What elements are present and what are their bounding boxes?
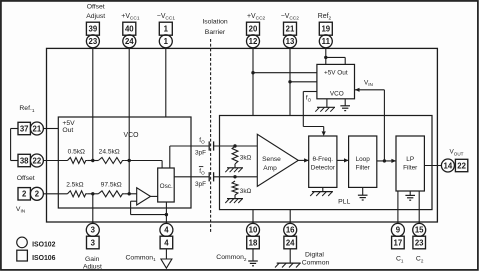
svg-text:14: 14 — [444, 161, 453, 170]
isolation barrier label — [202, 18, 228, 36]
ground (chassis) under upper 3k — [227, 167, 243, 169]
svg-text:1: 1 — [164, 25, 169, 34]
phase-frequency detector box — [309, 136, 337, 187]
pin label Ref1 — [19, 105, 34, 114]
ground under LP filter — [405, 194, 415, 196]
pin square 19 (Ref2, ISO106) — [319, 22, 332, 35]
wire pin1 -VCC1 down to VCO box — [165, 48, 167, 117]
legend label ISO106 — [32, 255, 56, 262]
wire fO to sense amp — [214, 145, 258, 147]
svg-text:Barrier: Barrier — [205, 29, 226, 36]
wire digital common ground stub — [289, 249, 291, 263]
label fObar — [199, 167, 205, 176]
wire pin16 digital common — [289, 210, 291, 224]
junction row2 gain node — [91, 192, 94, 195]
pin circle 24 (+VCC1, ISO102) — [123, 35, 136, 48]
legend label ISO102 — [32, 242, 56, 249]
pin label Ref2 — [318, 13, 332, 22]
svg-text:LP: LP — [406, 156, 414, 163]
resistor 0.5k — [68, 158, 88, 164]
svg-text:ISO106: ISO106 — [32, 255, 56, 262]
pin square 37 (Ref1, ISO106) — [18, 122, 30, 134]
pin label Common1 — [126, 254, 157, 262]
pin label C1 — [396, 256, 404, 264]
pin circle 21 (Ref1, ISO102) — [30, 122, 43, 135]
junction row2 +VCC1 node — [128, 192, 131, 195]
wire 3k to ground — [234, 164, 236, 168]
svg-text:38: 38 — [20, 156, 29, 165]
label fO (demod) — [306, 95, 312, 103]
wire detector to loop filter — [337, 159, 349, 161]
wire pin10 common2 — [252, 210, 254, 224]
pin circle 14 (VOUT, ISO102) — [441, 159, 454, 172]
svg-text:VCO: VCO — [124, 132, 140, 139]
VCO box — [58, 117, 191, 208]
svg-text:19: 19 — [321, 25, 330, 34]
wire fObar from oscillator — [174, 176, 209, 178]
ground under loop filter — [358, 194, 368, 196]
pin label Gain Adjust — [83, 256, 102, 271]
svg-text:Out: Out — [62, 127, 73, 134]
svg-text:Amp: Amp — [263, 165, 277, 172]
pin square 23 (C2, ISO106) — [413, 236, 426, 249]
wire pin12 +VCC2 down to PLL box — [252, 48, 254, 116]
wire C2 pin — [418, 191, 420, 224]
svg-text:4: 4 — [164, 226, 169, 235]
wire LP filter ground stub — [409, 191, 411, 195]
pin circle 4 (Common1, ISO102) — [160, 223, 173, 236]
arrow into loop filter — [344, 158, 349, 162]
label 3k upper — [240, 155, 252, 162]
label Sense Amp — [262, 156, 281, 172]
svg-text:13: 13 — [286, 37, 295, 46]
svg-text:22: 22 — [33, 156, 42, 165]
svg-text:VCO: VCO — [330, 90, 344, 97]
legend square symbol ISO106 — [17, 250, 28, 261]
svg-text:12: 12 — [249, 37, 258, 46]
wire loop filter to LP filter — [377, 160, 396, 162]
svg-text:Isolation: Isolation — [202, 18, 228, 25]
svg-text:+5V Out: +5V Out — [324, 69, 348, 76]
label 24.5k — [99, 148, 120, 155]
pin square 2 (VIN, ISO106) — [18, 188, 30, 200]
pin circle 1 (-VCC1, ISO102) — [159, 35, 172, 48]
svg-text:20: 20 — [249, 25, 258, 34]
wire stub +VCC2 to +5V Out box — [253, 72, 317, 74]
ground (chassis) under demod VCO — [317, 106, 335, 108]
svg-text:3: 3 — [91, 226, 96, 235]
svg-text:3pF: 3pF — [195, 181, 206, 188]
outer box (amplifier outline) — [47, 48, 438, 222]
wire fO from oscillator top — [169, 146, 171, 168]
resistor 3k (fObar bias) — [232, 181, 238, 195]
pin label -VCC1 — [157, 13, 176, 22]
pin circle 13 (-VCC2, ISO102) — [284, 35, 297, 48]
wire pin2 VIN into divider row 2 — [43, 193, 67, 195]
pin square 24 (Digital Common, ISO106) — [284, 236, 297, 249]
wire bracket joining squares 37 and 38 — [11, 128, 18, 130]
oscillator box Osc — [158, 168, 175, 202]
wire stub -VCC2 to +5V Out box — [290, 81, 317, 83]
label VCO (demod) — [330, 90, 344, 97]
svg-text:3kΩ: 3kΩ — [240, 188, 252, 195]
wire pin11 Ref2 down to +5V Out box — [325, 48, 327, 65]
svg-text:23: 23 — [89, 37, 98, 46]
svg-text:0.5kΩ: 0.5kΩ — [68, 148, 85, 155]
wire pin23 Offset Adjust down to divider node — [92, 48, 94, 161]
wire common2 ground stub — [252, 249, 254, 261]
pin square 38 (ISO106) — [18, 154, 30, 166]
common1 open arrow symbol — [161, 259, 172, 268]
wire to pin 4 common1 — [165, 215, 167, 224]
label theta-Freq Detector — [311, 156, 336, 172]
svg-text:Offset: Offset — [87, 4, 105, 11]
svg-text:18: 18 — [249, 238, 258, 247]
pin label VIN — [16, 206, 26, 215]
svg-text:Adjust: Adjust — [83, 264, 102, 271]
svg-text:4: 4 — [164, 238, 169, 247]
wire feedback to op-amp — [131, 214, 167, 216]
capacitor 3pF (fObar barrier) — [208, 172, 210, 181]
pin square 39 (Offset Adjust, ISO106) — [86, 22, 99, 35]
wire pin3 gain adjust — [92, 194, 94, 224]
pin circle 3 (Gain Adjust, ISO102) — [86, 223, 99, 236]
svg-text:ISO102: ISO102 — [32, 242, 56, 249]
label VCO — [124, 132, 140, 139]
junction +VCC2 stub — [251, 71, 254, 74]
svg-text:22: 22 — [457, 161, 466, 170]
pin circle 2 (VIN, ISO102) — [30, 187, 43, 200]
svg-text:17: 17 — [394, 238, 403, 247]
wire demod VCO ground stub 1 — [326, 99, 328, 108]
svg-text:2: 2 — [22, 190, 27, 199]
svg-text:3pF: 3pF — [195, 150, 206, 157]
legend circle symbol ISO102 — [17, 237, 28, 248]
svg-text:24.5kΩ: 24.5kΩ — [99, 148, 120, 155]
svg-text:Detector: Detector — [311, 164, 336, 171]
resistor 24.5k — [98, 158, 124, 164]
svg-text:11: 11 — [322, 37, 331, 46]
pin circle 12 (+VCC2, ISO102) — [247, 35, 260, 48]
wire loop filter ground stub — [362, 187, 364, 195]
label Osc — [160, 183, 173, 190]
wire row2 mid — [87, 193, 98, 195]
pin square 3 (Gain Adjust, ISO106) — [87, 236, 100, 249]
junction feedback/common node — [165, 213, 168, 216]
svg-text:2: 2 — [35, 190, 40, 199]
pin square 4 (Common1, ISO106) — [160, 236, 173, 249]
pin label +VCC2 — [247, 13, 266, 22]
wire Ref1 to VCO box (+5V Out) — [43, 128, 58, 130]
ground (chassis) under detector — [312, 191, 333, 193]
wire row1 to oscillator — [124, 160, 162, 162]
svg-text:Adjust: Adjust — [86, 13, 105, 20]
svg-text:15: 15 — [415, 226, 424, 235]
svg-text:PLL: PLL — [338, 198, 350, 205]
pin label Digital Common — [302, 251, 330, 266]
ground (chassis) under digital common — [277, 262, 301, 264]
wire pin22 into divider row 1 — [43, 160, 67, 162]
wire common1 arrow stub — [165, 249, 167, 259]
svg-text:+5V: +5V — [62, 120, 75, 127]
label VOUT — [450, 149, 464, 157]
wire row2 to op-amp — [124, 193, 136, 195]
svg-text:Gain: Gain — [85, 256, 100, 263]
capacitor 3pF (fO barrier) — [208, 141, 210, 150]
PLL section box — [220, 116, 433, 210]
svg-text:Sense: Sense — [262, 156, 281, 163]
pin circle 16 (Digital Common, ISO102) — [284, 223, 297, 236]
label PLL — [338, 198, 350, 205]
arrow into LP filter — [391, 159, 396, 163]
svg-text:21: 21 — [33, 124, 42, 133]
svg-text:21: 21 — [286, 25, 295, 34]
svg-text:Filter: Filter — [403, 165, 418, 172]
LP filter box — [396, 136, 424, 191]
svg-text:θ-Freq.: θ-Freq. — [312, 156, 333, 163]
svg-text:1: 1 — [164, 37, 169, 46]
wire C1 pin — [397, 191, 399, 224]
+5V Out / VCO box (demodulator) — [317, 64, 355, 98]
svg-text:10: 10 — [249, 226, 258, 235]
wire pin24 +VCC1 down through divider nodes — [128, 48, 130, 161]
wire row1 mid — [87, 160, 98, 162]
svg-text:Offset: Offset — [17, 175, 35, 182]
wire fObar to sense amp — [214, 176, 258, 178]
svg-text:Osc.: Osc. — [160, 183, 173, 190]
svg-text:Common1: Common1 — [126, 254, 157, 262]
pin square 20 (+VCC2, ISO106) — [247, 22, 260, 35]
pin square 22 (VOUT, ISO106) — [455, 159, 467, 171]
svg-text:Loop: Loop — [356, 156, 371, 163]
svg-text:3: 3 — [91, 238, 96, 247]
arrow into detector — [304, 158, 309, 162]
label +5V Out inside VCO box — [62, 120, 75, 134]
label VIN (demod) — [364, 79, 373, 87]
wire sense amp to detector — [298, 159, 308, 161]
junction fObar bias node — [233, 175, 236, 178]
arrow fO into detector top — [322, 131, 326, 136]
wire LP filter to VOUT — [424, 165, 441, 167]
label LP Filter — [403, 156, 418, 172]
svg-text:16: 16 — [286, 226, 295, 235]
junction fO bias node — [233, 144, 236, 147]
loop filter box — [349, 136, 377, 187]
ground (chassis) under lower 3k — [227, 198, 243, 200]
svg-text:97.5kΩ: 97.5kΩ — [101, 182, 122, 189]
resistor 97.5k — [98, 191, 124, 197]
svg-text:3kΩ: 3kΩ — [240, 155, 252, 162]
pin circle 22 (ISO102) — [30, 154, 43, 167]
svg-text:37: 37 — [20, 124, 29, 133]
svg-text:24: 24 — [286, 238, 295, 247]
wire between divider rows — [128, 161, 130, 194]
arrow into demod VCO — [355, 88, 360, 92]
pin circle 9 (C1, ISO102) — [391, 223, 404, 236]
wire lower 3k to ground — [234, 195, 236, 199]
label +5V Out (demod) — [324, 69, 348, 76]
svg-text:2.5kΩ: 2.5kΩ — [66, 182, 83, 189]
junction row1 +VCC1 node — [128, 159, 131, 162]
pin circle 11 (Ref2, ISO102) — [319, 35, 332, 48]
svg-text:Filter: Filter — [356, 164, 371, 171]
pin label Offset Adjust — [86, 4, 105, 20]
wire Ref2 branch — [326, 56, 345, 58]
label Loop Filter — [356, 156, 371, 172]
svg-text:40: 40 — [125, 25, 134, 34]
label 0.5k — [68, 148, 85, 155]
pin square 21 (-VCC2, ISO106) — [284, 22, 297, 35]
label 97.5k — [101, 182, 122, 189]
pin square 1 (-VCC1, ISO106) — [159, 22, 172, 35]
pin square 40 (+VCC1, ISO106) — [123, 22, 136, 35]
op-amp U1 (input amp) — [137, 188, 151, 205]
pin square 17 (C1, ISO106) — [392, 236, 405, 249]
junction row1 offset node — [91, 159, 94, 162]
pin label Common2 — [216, 254, 247, 262]
pin square 18 (Common2, ISO106) — [247, 236, 260, 249]
label 2.5k — [66, 182, 83, 189]
pin circle 10 (Common2, ISO102) — [247, 223, 260, 236]
svg-text:Common2: Common2 — [216, 254, 247, 262]
svg-text:9: 9 — [396, 226, 401, 235]
ground under common2 — [248, 260, 258, 262]
svg-text:39: 39 — [89, 25, 98, 34]
junction -VCC2 stub — [288, 80, 291, 83]
pin circle 23 (Offset Adjust, ISO102) — [86, 35, 99, 48]
label 3pF (fO) — [195, 150, 206, 157]
wire op-amp output to oscillator — [151, 195, 158, 197]
pin label -VCC2 — [281, 13, 300, 22]
pin label C2 — [416, 256, 424, 264]
wire pin13 -VCC2 down to PLL box — [289, 48, 291, 116]
isolation barrier dashed line — [210, 39, 212, 233]
svg-text:Digital: Digital — [305, 251, 324, 258]
wire demod fO to detector — [303, 91, 317, 93]
wire VIN tap up to demod VCO — [383, 90, 385, 161]
ground under demod VCO — [340, 105, 350, 107]
junction VIN tap — [383, 159, 386, 162]
resistor 2.5k — [68, 191, 88, 197]
wire demod VCO ground stub 2 — [344, 99, 346, 106]
wire detector ground stub — [322, 187, 324, 191]
resistor 3k (fO bias) — [232, 146, 238, 164]
label fO — [199, 137, 205, 145]
wire oscillator bottom stub — [165, 202, 167, 215]
svg-text:23: 23 — [415, 238, 424, 247]
label 3k lower — [240, 188, 252, 195]
svg-text:Common: Common — [302, 260, 330, 267]
pin label +VCC1 — [121, 13, 140, 22]
svg-text:24: 24 — [125, 37, 134, 46]
pin circle 15 (C2, ISO102) — [413, 223, 426, 236]
junction Ref2 branch — [324, 56, 327, 59]
sense amp triangle — [257, 134, 298, 186]
label 3pF (fObar) — [195, 181, 206, 188]
pin label Offset — [17, 175, 35, 182]
